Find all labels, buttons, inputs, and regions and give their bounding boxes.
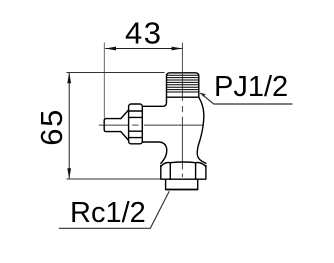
taper cone bottom: [121, 132, 129, 141]
vertical center line dash-dot: [181, 106, 183, 177]
dimension 43 line: [105, 48, 182, 50]
bottom rect lower line: [166, 189, 198, 191]
extension line top of 65: [67, 72, 165, 74]
thread section outline: [167, 73, 199, 97]
bottom connection rect: [166, 179, 198, 189]
extension line bottom of 65: [67, 178, 161, 180]
nut body: [161, 166, 206, 180]
nut chamfer arcs top: [161, 162, 206, 167]
arrow bottom of 65: [67, 168, 71, 179]
svg-text:65: 65: [34, 108, 69, 146]
thread lines: [167, 75, 199, 92]
valve outline group: [104, 73, 206, 164]
extension line left of 43: [103, 43, 105, 119]
knob ridge line 1: [129, 110, 143, 112]
svg-text:PJ1/2: PJ1/2: [214, 71, 288, 103]
hex nut: [161, 162, 206, 190]
svg-text:43: 43: [125, 16, 162, 51]
leader line Rc1/2: [59, 191, 169, 228]
stem tip: [104, 119, 121, 132]
vertical center line (solid upper part / extension of 43): [181, 43, 183, 101]
arrow top of 65: [67, 73, 71, 84]
dimension 65 line: [68, 73, 70, 180]
svg-text:Rc1/2: Rc1/2: [70, 197, 146, 229]
knob ridge line 2: [129, 116, 143, 118]
body top shoulder with fillet to pipe: [142, 97, 166, 106]
nut hex edge left: [169, 163, 171, 179]
knob ridge line 4: [129, 137, 143, 139]
horizontal center line dash-dot: [99, 124, 204, 126]
knob outline: [129, 104, 143, 144]
arrow right of 43: [172, 47, 183, 51]
taper cone top: [121, 110, 129, 119]
knob ridge line 3: [129, 130, 143, 132]
arrow left of 43: [105, 47, 116, 51]
body bottom with fillet down to nut flare left: [142, 142, 167, 163]
leader line PJ1/2: [200, 93, 292, 104]
pipe right side bulge down to nut flare right: [197, 97, 206, 163]
nut hex edge right: [195, 163, 197, 179]
leader arrowhead PJ: [200, 93, 205, 97]
